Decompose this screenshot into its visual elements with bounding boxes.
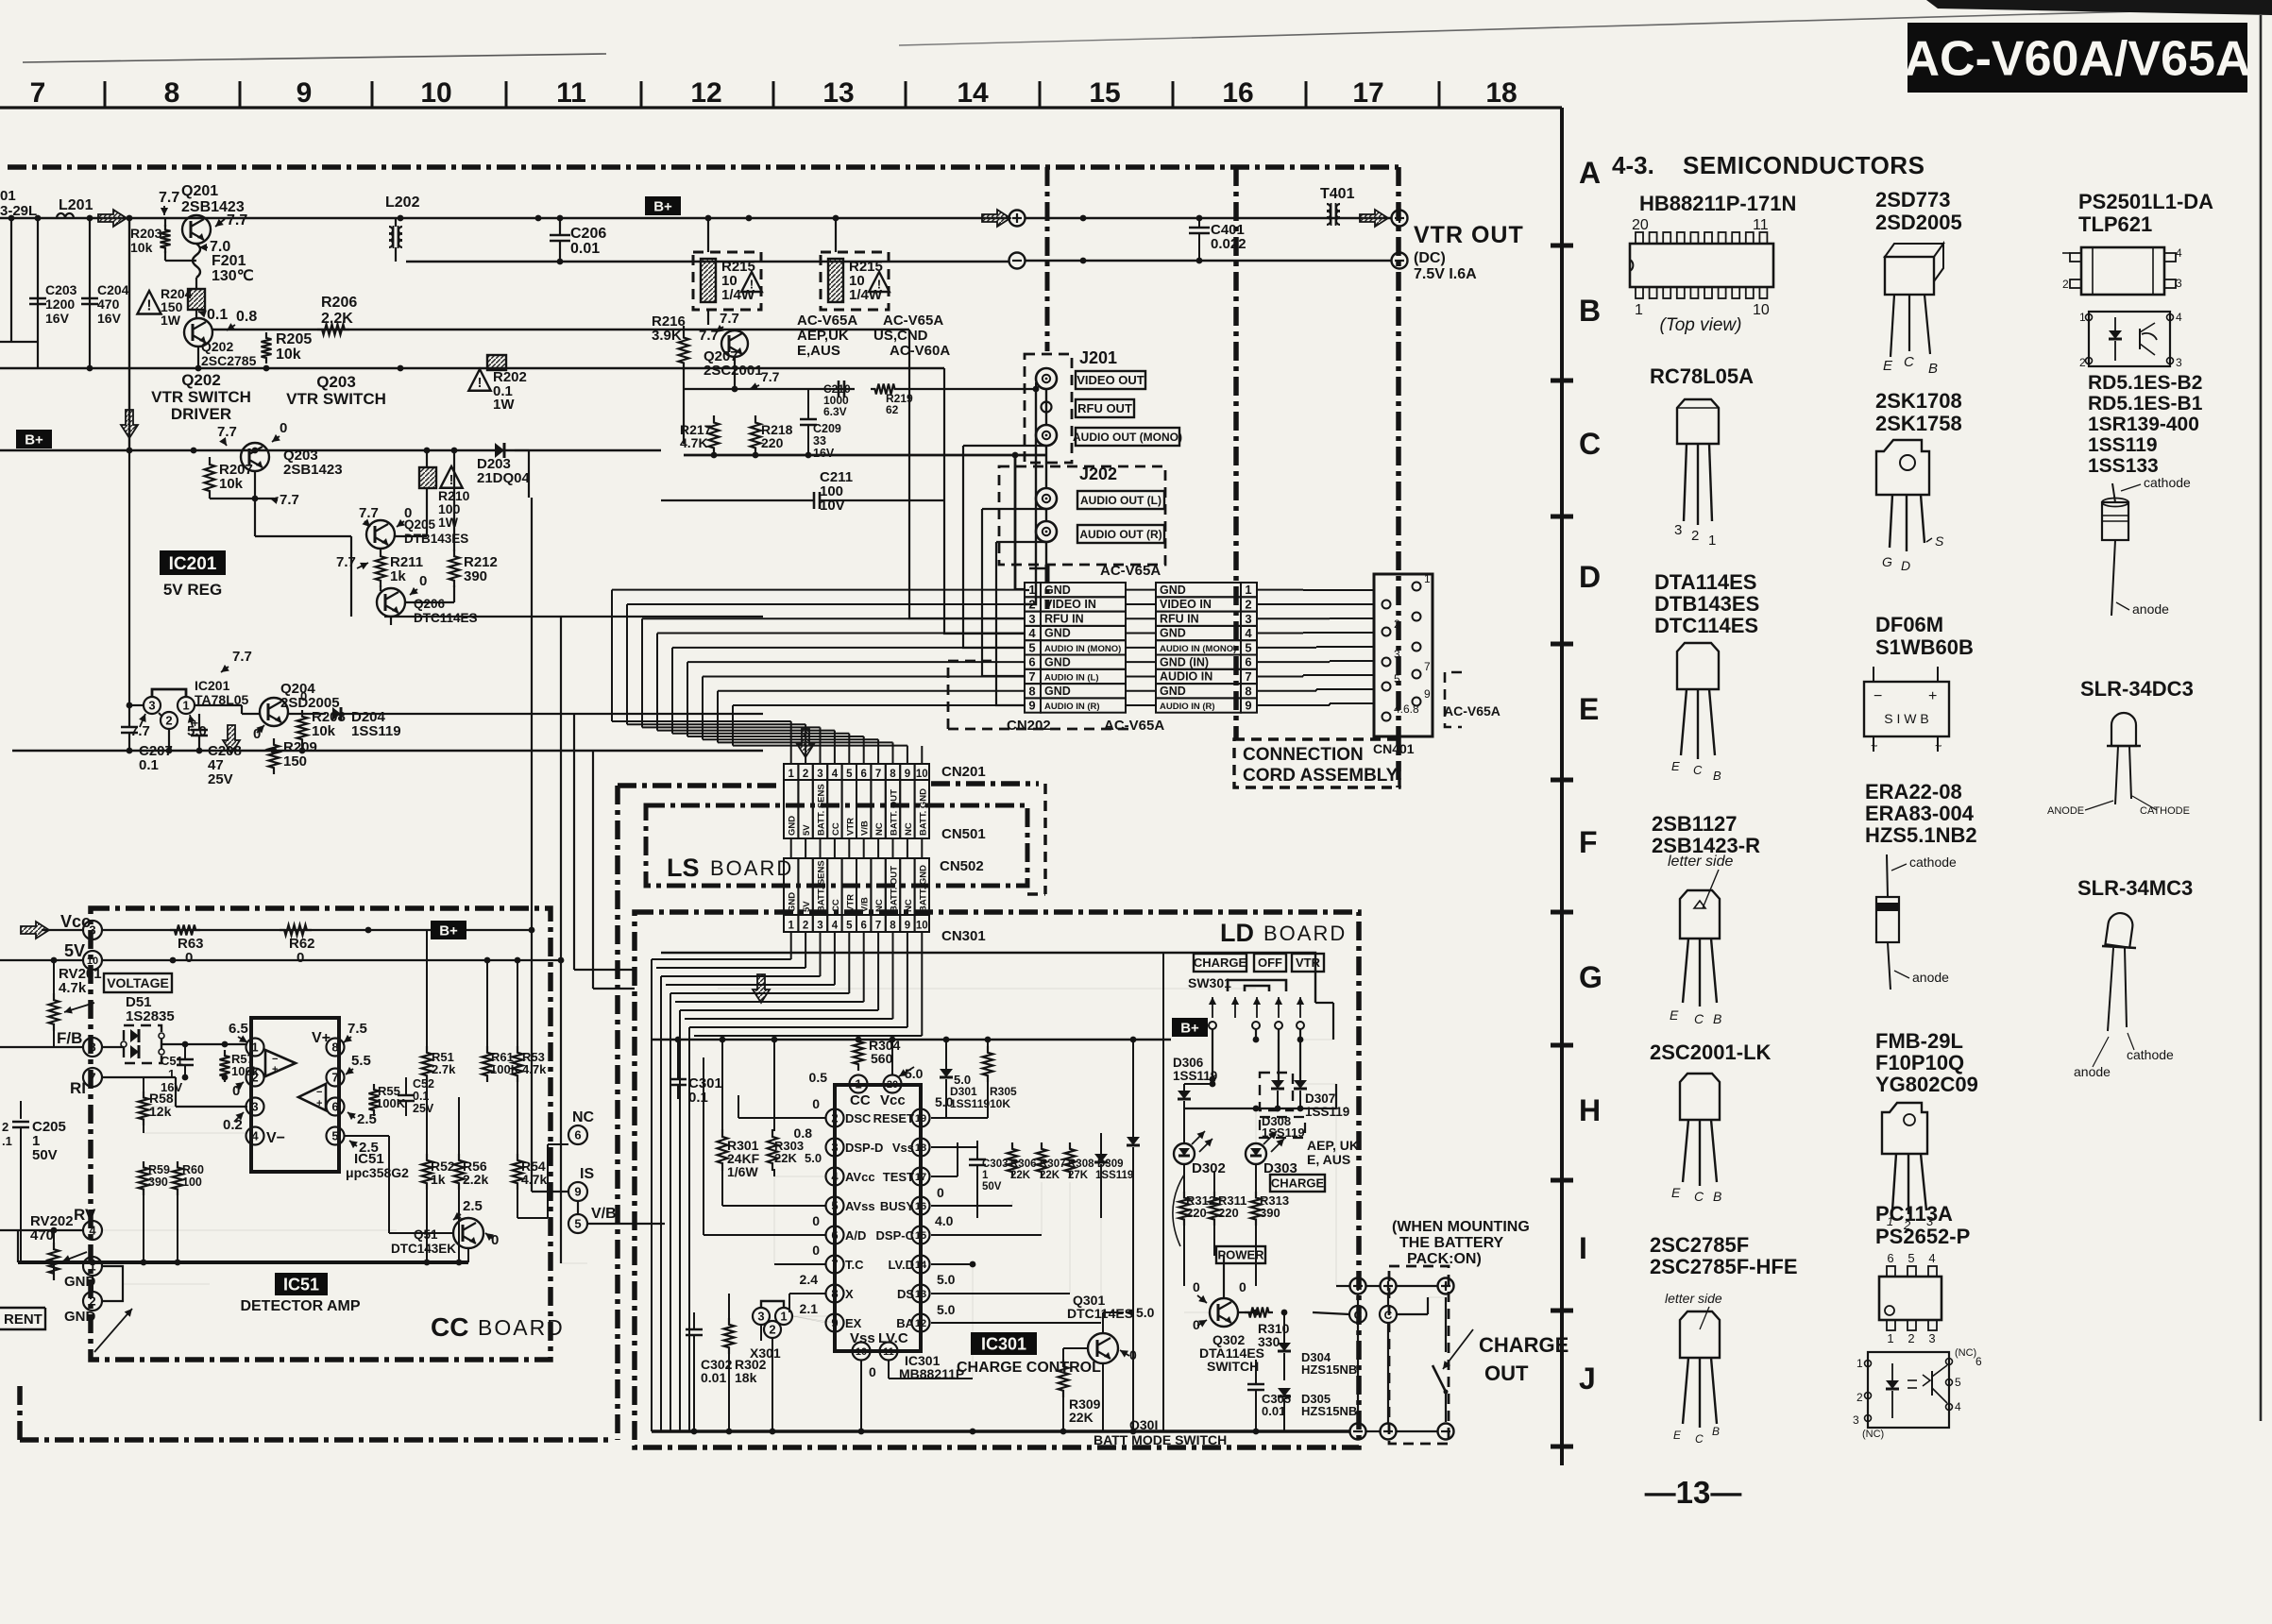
svg-text:AUDIO IN (MONO): AUDIO IN (MONO)	[1044, 644, 1121, 654]
wire cc feed y1017	[529, 959, 561, 961]
svg-text:G: G	[1882, 554, 1892, 569]
svg-text:BOARD: BOARD	[478, 1315, 565, 1340]
svg-text:HZS15NB: HZS15NB	[1301, 1362, 1357, 1377]
svg-text:3: 3	[1028, 612, 1035, 626]
svg-text:AEP, UK: AEP, UK	[1307, 1138, 1359, 1153]
wire R203 stub	[164, 218, 166, 227]
svg-text:0.01: 0.01	[570, 241, 600, 257]
svg-text:GND: GND	[64, 1274, 96, 1290]
boxed label POWER	[1216, 1246, 1265, 1263]
svg-text:BOARD: BOARD	[710, 856, 793, 880]
voltage 7.7 at Q201 emitter	[215, 219, 225, 227]
svg-text:E: E	[1579, 692, 1599, 726]
wire x301 pins	[771, 1338, 773, 1431]
svg-text:Vcc: Vcc	[60, 912, 91, 931]
svg-text:1: 1	[182, 699, 189, 713]
svg-text:CC: CC	[831, 899, 841, 912]
boxed label VTR sw	[1292, 954, 1324, 972]
capacitor C210	[838, 381, 840, 398]
wire minus rail to VTR OUT	[1026, 260, 1391, 262]
svg-text:17: 17	[1352, 77, 1383, 109]
svg-text:AUDIO OUT (MONO): AUDIO OUT (MONO)	[1073, 431, 1182, 444]
arrow down near c208	[223, 725, 240, 753]
svg-text:BA: BA	[896, 1316, 914, 1330]
pin circle 9 IS	[568, 1182, 587, 1201]
IC301 black label	[971, 1332, 1037, 1355]
jack AUDIO OUT MONO	[1036, 425, 1057, 446]
resistor R51	[422, 1046, 432, 1082]
svg-text:7.7: 7.7	[227, 212, 247, 228]
svg-text:F: F	[1579, 825, 1598, 859]
svg-text:Q201: Q201	[181, 183, 218, 199]
svg-text:NC: NC	[904, 899, 914, 912]
svg-text:22K: 22K	[1069, 1410, 1094, 1425]
svg-text:27K: 27K	[1068, 1170, 1089, 1181]
svg-text:0: 0	[300, 689, 307, 703]
svg-text:BATT. OUT: BATT. OUT	[890, 789, 900, 836]
svg-text:A/D: A/D	[845, 1228, 866, 1243]
jack AUDIO OUT R	[1036, 521, 1057, 542]
resistor R219 zigzag	[871, 384, 899, 395]
svg-text:OFF: OFF	[1258, 956, 1282, 970]
svg-text:4: 4	[1245, 626, 1252, 640]
svg-text:RD5.1ES-B2: RD5.1ES-B2	[2088, 372, 2202, 394]
svg-text:5.5: 5.5	[351, 1053, 371, 1069]
svg-text:13: 13	[915, 1289, 926, 1300]
svg-text:220: 220	[1218, 1206, 1239, 1220]
svg-text:CHARGE: CHARGE	[1194, 956, 1247, 970]
B+ label CC	[431, 921, 466, 939]
wire ic201 mid vertical	[168, 728, 170, 751]
svg-text:2.1: 2.1	[800, 1301, 819, 1316]
svg-text:4: 4	[832, 921, 839, 932]
svg-text:9: 9	[1424, 687, 1431, 701]
svg-text:4-3.: 4-3.	[1612, 151, 1654, 179]
svg-text:3-29L: 3-29L	[0, 203, 37, 219]
right ruler line with ticks	[1560, 108, 1564, 1465]
svg-text:2.5: 2.5	[463, 1198, 483, 1214]
svg-text:CORD ASSEMBLY: CORD ASSEMBLY	[1243, 766, 1399, 786]
svg-text:PS2652-P: PS2652-P	[1875, 1225, 1970, 1248]
svg-text:7: 7	[1424, 660, 1431, 673]
svg-text:BATT. SENS: BATT. SENS	[817, 860, 827, 912]
svg-text:V/B: V/B	[591, 1206, 617, 1222]
svg-text:2.7k: 2.7k	[432, 1062, 456, 1076]
board dash-dot mid horizontal right	[931, 781, 1039, 787]
resistor R308	[1065, 1142, 1076, 1178]
svg-text:0: 0	[297, 950, 304, 966]
svg-text:CHARGE CONTROL: CHARGE CONTROL	[957, 1360, 1101, 1376]
svg-text:RFU IN: RFU IN	[1044, 612, 1084, 625]
minus circle out3	[1438, 1424, 1454, 1440]
wire video jack stub	[1035, 382, 1037, 389]
svg-text:!: !	[146, 297, 151, 313]
svg-text:2: 2	[1857, 1391, 1863, 1404]
jack RFU OUT small	[1042, 402, 1052, 413]
svg-text:VTR: VTR	[1296, 956, 1321, 970]
svg-text:5: 5	[574, 1217, 581, 1231]
svg-text:3: 3	[817, 921, 822, 932]
component R204 hatched	[188, 289, 205, 310]
svg-text:6.5: 6.5	[229, 1021, 248, 1037]
svg-text:4: 4	[832, 769, 839, 780]
svg-text:130℃: 130℃	[212, 268, 254, 284]
svg-text:2: 2	[2, 1120, 8, 1134]
svg-text:GND: GND	[1044, 584, 1071, 597]
svg-text:F/B: F/B	[57, 1029, 82, 1047]
wire ic301 bottom pins	[860, 1361, 862, 1431]
wire ld vertical x1200	[1132, 1040, 1134, 1137]
boxed label CHARGE sw	[1194, 954, 1246, 972]
wire B+ rail2	[0, 449, 661, 452]
wire bundle elbows into CN201	[611, 590, 613, 721]
svg-text:AC-V65A: AC-V65A	[1100, 563, 1161, 579]
pin circle 6	[327, 1098, 345, 1116]
svg-text:10: 10	[916, 921, 928, 932]
svg-text:V/B: V/B	[860, 897, 871, 912]
diode D304	[1278, 1343, 1291, 1351]
svg-text:1SS119: 1SS119	[2088, 434, 2158, 456]
dual diode D51 dashed box	[124, 1025, 161, 1063]
svg-text:4.7k: 4.7k	[522, 1062, 547, 1076]
svg-text:5V: 5V	[802, 824, 812, 836]
svg-text:3: 3	[89, 923, 95, 938]
svg-text:470: 470	[30, 1227, 54, 1243]
svg-text:J: J	[1579, 1362, 1596, 1396]
pin 11 LVC	[880, 1343, 898, 1361]
wire plus row	[1366, 1285, 1381, 1287]
svg-text:SLR-34MC3: SLR-34MC3	[2077, 876, 2193, 900]
svg-text:B+: B+	[1180, 1020, 1199, 1036]
svg-text:6: 6	[1028, 655, 1035, 669]
capacitor C401	[1198, 218, 1200, 228]
LD board dashed box	[635, 912, 1359, 1447]
svg-text:8: 8	[831, 1287, 838, 1301]
svg-text:2: 2	[165, 714, 172, 728]
svg-text:VIDEO IN: VIDEO IN	[1044, 598, 1096, 611]
svg-text:LV.D: LV.D	[889, 1258, 914, 1272]
svg-text:1: 1	[2079, 311, 2086, 324]
svg-text:+: +	[1928, 688, 1937, 704]
svg-text:−: −	[1874, 688, 1882, 704]
svg-text:TEST: TEST	[883, 1170, 914, 1184]
plus circle out2	[1381, 1278, 1397, 1294]
svg-text:VOLTAGE: VOLTAGE	[107, 975, 169, 990]
svg-text:GND: GND	[1044, 685, 1071, 698]
svg-text:100K: 100K	[376, 1096, 406, 1110]
op-amp A triangle	[265, 1050, 296, 1076]
svg-text:50V: 50V	[32, 1147, 58, 1163]
svg-text:3: 3	[1394, 648, 1400, 661]
wire q205 r210	[426, 450, 428, 467]
potentiometer RV202	[49, 1243, 59, 1280]
svg-text:25V: 25V	[413, 1102, 434, 1115]
svg-text:GND: GND	[788, 816, 798, 836]
resistor R212	[449, 550, 460, 587]
svg-text:2SK1708: 2SK1708	[1875, 389, 1962, 413]
svg-text:2: 2	[1691, 528, 1699, 544]
svg-text:10k: 10k	[130, 240, 153, 255]
boxed label CURRENT partial	[0, 1308, 45, 1329]
svg-text:1: 1	[1028, 583, 1035, 597]
regulator IC201 pins	[152, 689, 186, 697]
resistor R217	[709, 415, 720, 455]
svg-text:RFU IN: RFU IN	[1160, 612, 1199, 625]
wire cc mid rails	[426, 1080, 428, 1156]
svg-text:1: 1	[855, 1077, 861, 1091]
capacitor C208 electrolytic	[191, 729, 208, 732]
board outline dash-dot top	[8, 164, 1399, 170]
diode D308	[1294, 1080, 1307, 1089]
resistor R203	[161, 225, 171, 253]
svg-text:3: 3	[831, 1141, 838, 1155]
svg-text:R60: R60	[182, 1163, 204, 1176]
transistor Q204	[260, 698, 288, 726]
svg-text:DTA114ES: DTA114ES	[1654, 570, 1756, 594]
boxed label RFU OUT	[1076, 399, 1134, 417]
svg-text:3: 3	[2176, 356, 2182, 369]
svg-text:G: G	[1579, 960, 1602, 994]
svg-text:DTC143EK: DTC143EK	[391, 1242, 456, 1256]
svg-text:3: 3	[1853, 1413, 1859, 1427]
svg-text:R308: R308	[1068, 1159, 1094, 1170]
svg-text:GND: GND	[1160, 584, 1186, 597]
svg-text:1SS119: 1SS119	[1305, 1105, 1349, 1119]
wire q302 row	[1238, 1311, 1256, 1313]
svg-text:A: A	[1579, 156, 1601, 190]
svg-text:DRIVER: DRIVER	[171, 405, 231, 423]
connector CN201 with pin labels	[784, 764, 798, 780]
svg-text:1: 1	[1887, 1331, 1893, 1345]
svg-text:E: E	[1671, 759, 1680, 773]
svg-text:S: S	[1935, 533, 1944, 549]
svg-text:6: 6	[1887, 1251, 1893, 1265]
svg-text:7: 7	[331, 1071, 338, 1085]
svg-text:Q202: Q202	[201, 339, 233, 354]
wire ld rail drops	[857, 1037, 859, 1040]
group dash vertical x1107	[1043, 784, 1047, 894]
wire q206 to bus	[390, 617, 392, 625]
svg-text:0: 0	[1193, 1279, 1200, 1294]
svg-text:GND: GND	[64, 1309, 96, 1325]
wire bundle into table1	[612, 589, 1025, 591]
svg-text:16V: 16V	[97, 311, 122, 326]
pin 1 CC	[850, 1075, 868, 1093]
B+ label rail2	[16, 430, 52, 448]
wire c51 r57 bus	[176, 1043, 185, 1045]
svg-text:B: B	[1712, 1425, 1720, 1438]
wire d203 down	[515, 449, 529, 451]
svg-text:6: 6	[331, 1100, 338, 1114]
svg-text:2: 2	[1245, 598, 1251, 612]
resistor R306	[1008, 1142, 1018, 1178]
wire left vertical x137	[128, 218, 130, 450]
svg-text:390: 390	[148, 1176, 168, 1189]
pin circle 6 NC	[568, 1125, 587, 1144]
svg-text:SLR-34DC3: SLR-34DC3	[2080, 677, 2194, 701]
svg-text:16V: 16V	[45, 311, 70, 326]
switch arrows	[1212, 997, 1213, 1018]
svg-text:5: 5	[1955, 1376, 1961, 1389]
capacitor C203	[37, 218, 39, 368]
wire L202 vertical	[395, 218, 397, 227]
svg-text:0: 0	[869, 1364, 876, 1379]
pin circle 4 RV	[83, 1221, 102, 1240]
svg-text:GND: GND	[1044, 655, 1071, 668]
svg-text:VTR SWITCH: VTR SWITCH	[286, 390, 386, 408]
wires table1 to table2	[1126, 589, 1156, 591]
J202 dashed box	[999, 466, 1165, 565]
svg-text:7.7: 7.7	[217, 424, 237, 440]
svg-text:5V: 5V	[802, 901, 812, 912]
resistor R57	[220, 1050, 230, 1082]
svg-text:C: C	[1904, 354, 1914, 370]
svg-text:470: 470	[97, 296, 120, 312]
svg-text:GND: GND	[1160, 627, 1186, 640]
switch SW301 bracket	[1228, 980, 1286, 991]
svg-text:BUSY: BUSY	[880, 1199, 914, 1213]
resistor R58	[139, 1091, 149, 1125]
svg-text:0.1: 0.1	[688, 1090, 708, 1106]
pin circle 3	[246, 1098, 264, 1116]
scan hairline top-left	[23, 54, 606, 62]
svg-text:0: 0	[1239, 1279, 1246, 1294]
svg-text:16: 16	[915, 1201, 926, 1212]
svg-text:BATT MODE SWITCH: BATT MODE SWITCH	[1094, 1432, 1227, 1447]
svg-text:DSP-D: DSP-D	[845, 1141, 883, 1155]
connector table (right)	[1156, 583, 1241, 597]
svg-text:B: B	[1713, 1189, 1721, 1204]
svg-text:7.7: 7.7	[232, 649, 252, 665]
diode D204	[332, 707, 341, 720]
svg-text:01: 01	[0, 188, 16, 204]
svg-text:E: E	[1883, 358, 1893, 374]
svg-text:E: E	[1671, 1185, 1681, 1200]
svg-text:D301: D301	[950, 1085, 977, 1098]
resistor R55	[369, 1084, 380, 1116]
svg-text:6.3V: 6.3V	[823, 405, 847, 418]
B+ label top rail	[645, 196, 681, 215]
wire pin3 row	[144, 1106, 247, 1108]
svg-text:7.5: 7.5	[348, 1021, 367, 1037]
board dash-dot bottom	[20, 1437, 614, 1443]
arrow to current	[94, 1309, 132, 1352]
LS board dashed box	[646, 805, 1027, 886]
CC board dashed box	[91, 908, 551, 1360]
svg-text:D: D	[1579, 560, 1601, 594]
svg-text:5V REG: 5V REG	[163, 581, 222, 599]
dashed box D307 D308	[1260, 1073, 1293, 1110]
svg-text:2.2K: 2.2K	[321, 311, 353, 327]
svg-text:DETECTOR AMP: DETECTOR AMP	[240, 1298, 360, 1314]
svg-text:1/6W: 1/6W	[727, 1164, 758, 1179]
svg-text:3: 3	[1245, 612, 1251, 626]
svg-text:Q206: Q206	[414, 597, 446, 611]
pin circle 4	[246, 1127, 264, 1145]
wire y362 stub	[0, 341, 38, 343]
AC-V65A group dash-dot vertical	[1045, 167, 1050, 351]
svg-text:17: 17	[915, 1172, 926, 1183]
svg-text:anode: anode	[2132, 601, 2169, 617]
wire y1174 bus	[1184, 1108, 1336, 1109]
svg-text:5: 5	[831, 1199, 838, 1213]
svg-text:2SC2001-LK: 2SC2001-LK	[1650, 1040, 1772, 1064]
svg-text:1k: 1k	[431, 1172, 446, 1187]
svg-text:B+: B+	[25, 431, 43, 448]
svg-text:22K: 22K	[774, 1151, 797, 1165]
svg-text:—13—: —13—	[1645, 1475, 1742, 1510]
capacitor C305	[1247, 1383, 1264, 1386]
arrow down into CN201	[797, 729, 814, 757]
svg-text:8: 8	[890, 769, 896, 780]
svg-text:GND: GND	[788, 892, 798, 912]
wire LD top loop	[661, 953, 1315, 1003]
svg-text:0.8: 0.8	[794, 1125, 813, 1141]
wire R215-2 drop	[835, 218, 837, 252]
svg-text:D306: D306	[1173, 1056, 1204, 1070]
wire plus rail to VTR OUT	[1026, 217, 1391, 220]
svg-text:!: !	[877, 277, 881, 291]
wire minus rail	[406, 261, 1009, 263]
resistor R313	[1251, 1192, 1262, 1226]
svg-text:R305: R305	[990, 1085, 1017, 1098]
svg-text:AUDIO IN (MONO): AUDIO IN (MONO)	[1160, 644, 1236, 654]
svg-text:VTR: VTR	[845, 818, 856, 836]
svg-text:6: 6	[574, 1128, 581, 1142]
connector CN502/CN301 with pin labels	[784, 858, 798, 915]
svg-text:4: 4	[251, 1129, 259, 1143]
transistor Q206	[377, 588, 405, 617]
pin circle 5	[327, 1127, 345, 1145]
svg-text:1: 1	[1857, 1357, 1863, 1370]
wire y756 mid	[385, 713, 763, 715]
svg-text:V+: V+	[312, 1030, 331, 1046]
svg-text:IS: IS	[580, 1166, 594, 1182]
svg-text:6: 6	[860, 921, 866, 932]
svg-text:VTR OUT: VTR OUT	[1414, 222, 1524, 248]
title box AC-V60A/V65A	[1907, 23, 2247, 93]
scan hairline top-right	[1192, 8, 2272, 38]
svg-text:D302: D302	[1192, 1160, 1226, 1176]
wire long vertical x581	[560, 617, 562, 1263]
svg-text:18: 18	[915, 1142, 926, 1154]
svg-text:8: 8	[1028, 684, 1035, 698]
resistor R209	[269, 738, 280, 774]
svg-text:12k: 12k	[149, 1104, 172, 1119]
svg-text:(WHEN MOUNTING: (WHEN MOUNTING	[1392, 1219, 1530, 1235]
svg-text:2: 2	[89, 1294, 95, 1309]
wire r305	[987, 1040, 989, 1048]
svg-text:4: 4	[1028, 626, 1036, 640]
svg-text:(NC): (NC)	[1862, 1429, 1884, 1440]
potentiometer RV201	[49, 993, 59, 1031]
capacitor C211	[813, 492, 816, 509]
wire cc bottom rails	[426, 1188, 428, 1262]
svg-text:RENT: RENT	[4, 1311, 42, 1328]
svg-text:7: 7	[89, 1071, 95, 1085]
svg-text:+: +	[316, 1098, 322, 1109]
svg-text:BATT. SENS: BATT. SENS	[817, 784, 827, 836]
resistor R61	[483, 1046, 493, 1082]
svg-text:7.7: 7.7	[336, 554, 356, 570]
svg-text:GND: GND	[1160, 685, 1186, 698]
svg-text:RESET: RESET	[873, 1111, 914, 1125]
svg-text:DF06M: DF06M	[1875, 613, 1943, 636]
svg-text:150: 150	[283, 753, 307, 770]
svg-text:18k: 18k	[735, 1370, 757, 1385]
svg-text:R203: R203	[130, 226, 162, 241]
svg-text:19: 19	[915, 1113, 926, 1125]
